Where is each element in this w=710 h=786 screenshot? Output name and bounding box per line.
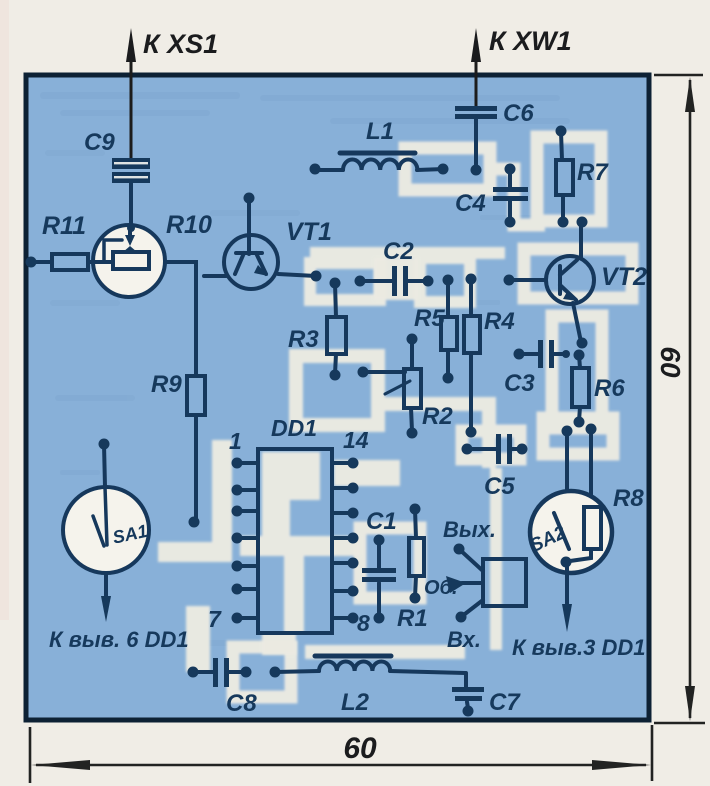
svg-text:Вх.: Вх. (447, 627, 481, 652)
svg-text:С6: С6 (503, 100, 534, 127)
svg-text:R9: R9 (151, 371, 182, 398)
svg-text:1: 1 (229, 428, 242, 454)
svg-text:К выв.3 DD1: К выв.3 DD1 (512, 635, 645, 660)
svg-text:L2: L2 (341, 689, 370, 716)
svg-text:С4: С4 (455, 190, 486, 217)
svg-text:Об.: Об. (424, 577, 458, 599)
svg-text:R5: R5 (414, 305, 445, 332)
svg-text:R7: R7 (577, 159, 609, 186)
svg-text:Вых.: Вых. (443, 517, 496, 542)
svg-text:R6: R6 (594, 375, 625, 402)
svg-text:L1: L1 (366, 118, 394, 145)
svg-text:60: 60 (655, 346, 686, 378)
svg-text:8: 8 (357, 610, 370, 636)
svg-text:VT1: VT1 (286, 218, 332, 246)
svg-text:R2: R2 (422, 403, 453, 430)
svg-text:С8: С8 (226, 690, 257, 717)
svg-text:R3: R3 (288, 326, 319, 353)
svg-text:R1: R1 (397, 605, 428, 632)
svg-text:С7: С7 (489, 689, 521, 716)
svg-text:VT2: VT2 (601, 263, 647, 291)
svg-text:60: 60 (343, 732, 377, 765)
svg-text:R11: R11 (42, 212, 86, 240)
svg-text:DD1: DD1 (271, 415, 317, 441)
svg-text:14: 14 (343, 427, 369, 453)
svg-text:R8: R8 (613, 485, 644, 512)
svg-text:К XW1: К XW1 (489, 26, 572, 56)
svg-text:С5: С5 (484, 473, 515, 500)
svg-text:К выв. 6 DD1: К выв. 6 DD1 (49, 627, 189, 652)
svg-text:R4: R4 (484, 308, 515, 335)
svg-text:С9: С9 (84, 129, 115, 156)
svg-text:С2: С2 (383, 238, 414, 265)
svg-text:7: 7 (208, 606, 222, 632)
svg-text:R10: R10 (166, 211, 212, 239)
svg-text:К XS1: К XS1 (143, 29, 218, 59)
svg-text:С3: С3 (504, 370, 535, 397)
svg-text:С1: С1 (366, 508, 397, 535)
